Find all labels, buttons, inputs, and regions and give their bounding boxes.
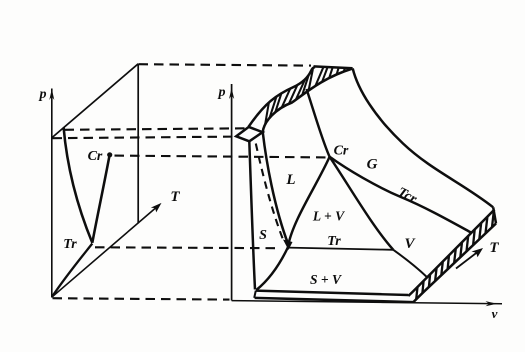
svg-text:Tr: Tr xyxy=(327,234,341,249)
L+V | V boundary (Cr to triple line right) xyxy=(330,157,394,250)
Tcr isotherm curve xyxy=(330,157,471,233)
hatch strokes (left band) xyxy=(265,67,345,124)
svg-text:L + V: L + V xyxy=(312,209,345,224)
svg-text:S: S xyxy=(259,228,267,243)
band top flat ink segment xyxy=(314,66,353,68)
svg-text:L: L xyxy=(285,172,295,188)
sublimation fold (triple point to sheet corner) xyxy=(256,247,288,291)
L | L+V boundary (Cr to triple line left) xyxy=(288,157,329,246)
L-G boundary curve (band to Cr) xyxy=(307,89,330,157)
sublimation curve (left) xyxy=(52,244,92,297)
svg-text:v: v xyxy=(492,306,498,321)
right cut face: top end edge xyxy=(493,207,496,223)
right cut face: upper edge xyxy=(408,210,494,297)
dashed bottom projection line xyxy=(53,298,230,299)
back edge curve (max-T isotherm, top) xyxy=(353,68,494,207)
v axis xyxy=(232,301,502,307)
wall left front edge xyxy=(249,141,255,289)
svg-text:T: T xyxy=(170,189,180,205)
T axis (left diagram) xyxy=(52,203,162,297)
svg-text:S + V: S + V xyxy=(310,272,342,287)
sheet front left cap xyxy=(254,291,256,298)
dashed top back edge xyxy=(139,64,312,65)
hatched band upper edge (max-p cut) xyxy=(249,67,316,127)
V | S+V fold line xyxy=(393,250,427,277)
sheet front face top edge xyxy=(256,291,408,295)
box diagonal edge (left top face) xyxy=(52,64,138,138)
right cut face: lower edge xyxy=(414,224,497,303)
sheet front face bottom edge xyxy=(255,298,414,302)
fusion curve (left) xyxy=(64,128,93,243)
svg-text:Cr: Cr xyxy=(88,149,103,164)
dashed projection line (upper middle) xyxy=(65,128,248,130)
triple line xyxy=(288,248,393,250)
hatch strokes (right band) xyxy=(416,210,494,299)
T arrow (bottom right) xyxy=(456,248,483,269)
svg-text:p: p xyxy=(39,87,47,102)
svg-text:Cr: Cr xyxy=(334,144,349,159)
melting line (dashed, on wall) xyxy=(256,144,284,242)
svg-text:p: p xyxy=(218,85,226,100)
svg-text:T: T xyxy=(489,240,499,256)
S region right boundary curve xyxy=(263,133,289,246)
svg-text:G: G xyxy=(367,157,378,173)
box back vertical edge xyxy=(137,64,139,224)
critical point dot Cr (left) xyxy=(107,152,112,157)
dashed projection line (front top) xyxy=(53,137,237,139)
hatched band lower edge xyxy=(263,69,353,133)
dashed Cr projection line xyxy=(115,156,327,158)
svg-text:Tr: Tr xyxy=(63,237,77,252)
dashed Tr projection line xyxy=(95,246,281,249)
triple point mark xyxy=(283,240,293,251)
wall top face parallelogram xyxy=(236,127,262,141)
vaporization curve (left) xyxy=(92,156,109,243)
p axis (left diagram) xyxy=(49,89,54,298)
p axis (right diagram) xyxy=(229,84,234,301)
